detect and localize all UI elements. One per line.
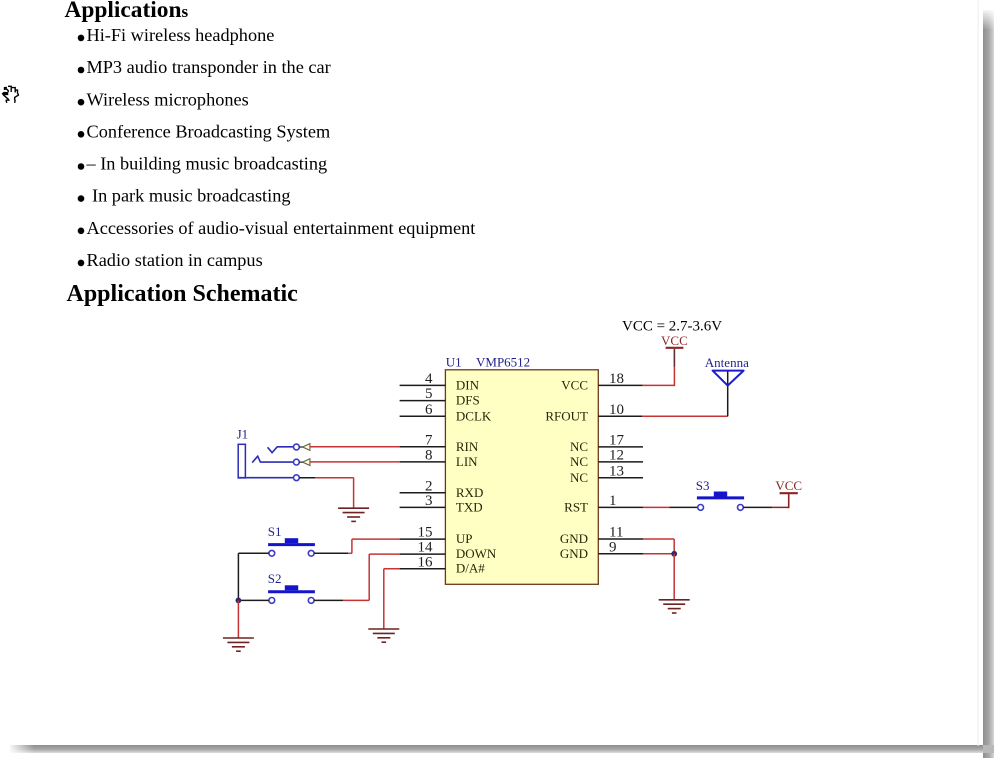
svg-text:17: 17	[609, 433, 625, 449]
pin 6 DCLK	[400, 402, 492, 423]
svg-text:VCC: VCC	[661, 333, 688, 348]
svg-text:S1: S1	[268, 524, 282, 539]
svg-text:S3: S3	[696, 478, 710, 493]
svg-text:7: 7	[425, 432, 433, 448]
pin 15 UP	[400, 525, 473, 546]
ground symbol right	[659, 600, 690, 613]
svg-text:DIN: DIN	[456, 377, 480, 392]
svg-text:8: 8	[425, 448, 433, 464]
svg-text:In park music broadcasting: In park music broadcasting	[92, 186, 291, 206]
svg-text:UP: UP	[456, 531, 473, 546]
wire S2 right to DOWN	[314, 554, 400, 600]
svg-text:RFOUT: RFOUT	[545, 408, 588, 423]
pin 4 DIN	[400, 371, 480, 392]
svg-text:Conference Broadcasting System: Conference Broadcasting System	[87, 121, 331, 141]
wire RFOUT to antenna	[642, 415, 728, 417]
pin 3 TXD	[400, 493, 483, 514]
pin 17 NC	[570, 433, 643, 454]
svg-text:NC: NC	[570, 439, 588, 454]
svg-text:VCC: VCC	[775, 478, 802, 493]
svg-text:D/A#: D/A#	[456, 561, 485, 576]
svg-text:13: 13	[609, 463, 624, 479]
J1 tip contact	[268, 444, 300, 453]
svg-text:LIN: LIN	[456, 454, 478, 469]
pin 8 LIN	[400, 448, 479, 469]
svg-text:18: 18	[609, 371, 624, 387]
svg-text:Application Schematic: Application Schematic	[67, 281, 299, 307]
svg-text:Antenna: Antenna	[705, 355, 749, 370]
pin 12 NC	[570, 448, 643, 469]
svg-text:J1: J1	[237, 427, 249, 442]
op-amp U1 VMP6512 IC body	[445, 370, 598, 585]
svg-text:Wireless microphones: Wireless microphones	[87, 89, 249, 109]
svg-text:Hi-Fi wireless headphone: Hi-Fi wireless headphone	[87, 25, 275, 45]
wire S2 left	[238, 599, 269, 601]
junction dot GND net	[671, 551, 677, 557]
svg-text:1: 1	[609, 493, 617, 509]
switch S2	[268, 585, 315, 603]
wire pin9 GND	[643, 553, 674, 555]
pin 1 RST	[564, 493, 643, 514]
pin 11 GND	[560, 525, 643, 546]
pin 16 D/A#	[400, 554, 486, 575]
port arrow to RIN	[299, 444, 310, 451]
pin 5 DFS	[400, 386, 480, 407]
hand cursor	[2, 86, 18, 102]
svg-text:VCC: VCC	[561, 377, 588, 392]
switch S1	[268, 538, 315, 556]
svg-text:DCLK: DCLK	[456, 408, 492, 423]
connector J1 jack body	[238, 444, 245, 478]
port arrow to LIN	[299, 459, 310, 466]
svg-text:Radio station in campus: Radio station in campus	[87, 250, 263, 270]
power symbol VCC right	[775, 478, 802, 493]
svg-text:14: 14	[418, 540, 434, 556]
pin 10 RFOUT	[545, 402, 643, 423]
svg-text:RIN: RIN	[456, 439, 479, 454]
svg-text:DOWN: DOWN	[456, 546, 497, 561]
antenna stem	[727, 371, 729, 417]
svg-text:RXD: RXD	[456, 485, 483, 500]
wire pin11 GND down	[643, 539, 674, 554]
J1 ring contact	[252, 456, 299, 465]
wire J1 tip to RIN	[310, 446, 400, 448]
wire S1 right to UP	[314, 539, 400, 553]
wire S1 left down	[238, 553, 269, 600]
svg-text:6: 6	[425, 402, 433, 418]
ground symbol J1	[338, 508, 369, 521]
pin 7 RIN	[400, 432, 479, 453]
wire D/A# to ground	[384, 569, 400, 629]
antenna symbol	[713, 371, 744, 386]
svg-text:5: 5	[425, 386, 433, 402]
svg-text:GND: GND	[560, 531, 588, 546]
power symbol VCC top	[661, 333, 688, 348]
ground symbol D/A#	[368, 629, 399, 642]
svg-text:VMP6512: VMP6512	[476, 355, 530, 370]
svg-text:NC: NC	[570, 454, 588, 469]
svg-text:Applications: Applications	[65, 0, 189, 23]
svg-text:9: 9	[609, 539, 617, 555]
svg-text:3: 3	[425, 493, 433, 509]
svg-text:15: 15	[418, 525, 433, 541]
svg-text:16: 16	[418, 554, 434, 570]
wire common to ground	[237, 600, 239, 638]
svg-text:– In building music broadcasti: – In building music broadcasting	[86, 154, 328, 174]
svg-text:MP3 audio transponder in the c: MP3 audio transponder in the car	[87, 57, 331, 77]
svg-text:NC: NC	[570, 470, 588, 485]
svg-text:Accessories of audio-visual en: Accessories of audio-visual entertainmen…	[87, 218, 476, 238]
svg-text:TXD: TXD	[456, 499, 483, 514]
wire pin18 to VCC	[642, 349, 674, 386]
svg-text:10: 10	[609, 402, 624, 418]
svg-text:U1: U1	[446, 355, 462, 370]
svg-text:VCC = 2.7-3.6V: VCC = 2.7-3.6V	[622, 318, 722, 334]
wire S3 to VCC	[743, 493, 788, 508]
switch S3	[697, 492, 744, 511]
pin 18 VCC	[561, 371, 643, 392]
pin 13 NC	[570, 463, 643, 484]
pin 2 RXD	[400, 478, 484, 499]
pin 9 GND	[560, 539, 643, 560]
junction dot S common	[236, 598, 242, 604]
wire pin1 RST to S3	[643, 506, 698, 508]
ground symbol S common	[223, 638, 254, 651]
svg-text:RST: RST	[564, 499, 588, 514]
svg-text:4: 4	[425, 371, 433, 387]
svg-text:12: 12	[609, 448, 624, 464]
wire junction to ground	[673, 554, 675, 600]
J1 sleeve contact	[239, 475, 299, 481]
wire J1 sleeve to ground	[299, 478, 353, 509]
svg-text:GND: GND	[560, 546, 588, 561]
svg-text:DFS: DFS	[456, 393, 480, 408]
svg-text:S2: S2	[268, 571, 282, 586]
pin 14 DOWN	[400, 540, 497, 561]
svg-text:11: 11	[609, 525, 623, 541]
wire J1 ring to LIN	[310, 461, 400, 463]
svg-text:2: 2	[425, 478, 433, 494]
